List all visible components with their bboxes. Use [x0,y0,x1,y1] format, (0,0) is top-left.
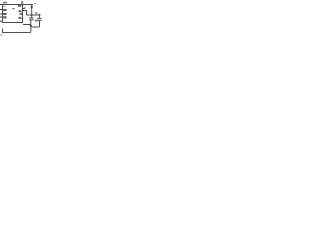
junction dot A2 [39,14,41,16]
pin 4 [0,16,3,18]
junction dot B [30,25,32,27]
pin label NC [19,17,22,19]
node A rail [27,14,41,16]
label under rail [1,35,3,36]
wire VOUT top [23,4,34,6]
label VIN text [34,3,36,4]
pin label OUT [18,5,21,7]
pin 3 [0,13,3,15]
pin label FB [19,10,22,12]
pin label row3 [20,13,23,15]
label above rail [35,12,38,14]
label part number [12,8,15,9]
pin label GND [3,16,6,18]
junction dot A1 [31,14,33,16]
pin label IN [3,9,6,11]
label pin1 number [21,1,23,3]
pin 2 [0,9,3,11]
wire GND out [23,25,31,33]
label pin8 number [24,7,26,9]
ground rail [3,29,31,33]
pin label VDD [3,6,5,7]
pin 8 stub [23,8,26,10]
label C2 [35,20,38,22]
junction dot VOUT [31,6,33,8]
pin 5 [0,21,3,23]
wire VOUT drop [31,5,33,16]
label U1 [3,2,7,4]
IC U1 [3,5,23,23]
capacitor C2 [39,15,41,18]
pin 1 [0,4,3,6]
capacitor C1 [31,15,33,18]
junction dot corner [21,3,23,5]
pin label EN [3,13,6,15]
label GND2 [0,20,2,22]
node B rail [31,26,40,28]
wire FB [23,11,27,16]
